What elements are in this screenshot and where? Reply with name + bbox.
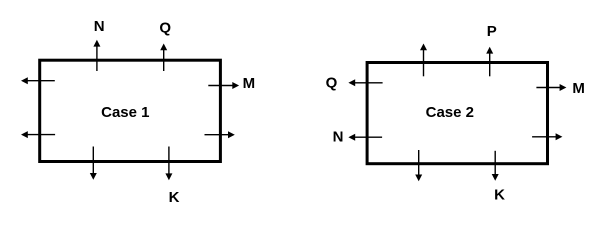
arrow down left (Case 2 bottom)	[415, 150, 422, 181]
arrow left lower (Case 1)	[21, 131, 55, 138]
svg-text:M: M	[243, 75, 256, 92]
arrow left upper (Case 1)	[21, 77, 55, 84]
arrow down K (Case 1 bottom-right)	[165, 147, 172, 181]
arrow right lower (Case 1)	[205, 131, 235, 138]
svg-text:M: M	[572, 80, 585, 97]
arrow right M (Case 2 upper)	[536, 84, 566, 91]
rectangle Case 1	[40, 60, 221, 161]
arrow left Q (Case 2 upper)	[348, 79, 382, 86]
svg-text:K: K	[494, 187, 505, 204]
arrow up Q (Case 1 top-right)	[160, 44, 167, 72]
arrow up N (Case 1 top-left)	[93, 40, 100, 71]
svg-text:N: N	[333, 129, 344, 146]
svg-text:Q: Q	[159, 19, 171, 36]
svg-text:Q: Q	[326, 75, 338, 92]
arrow right lower (Case 2)	[532, 133, 562, 140]
arrow left N (Case 2 lower)	[348, 134, 382, 141]
arrow right M (Case 1 upper)	[208, 82, 239, 89]
svg-text:K: K	[169, 189, 180, 206]
arrow up unlabeled (Case 2 top-left)	[420, 44, 427, 77]
rectangle Case 2	[367, 63, 547, 164]
arrow down left (Case 1 bottom)	[90, 147, 97, 180]
arrow down K (Case 2 bottom-right)	[492, 151, 499, 181]
svg-text:Case 1: Case 1	[101, 104, 149, 121]
arrow up P (Case 2 top-right)	[486, 47, 493, 77]
svg-text:Case 2: Case 2	[426, 104, 474, 121]
svg-text:P: P	[487, 23, 497, 40]
svg-text:N: N	[94, 18, 105, 35]
